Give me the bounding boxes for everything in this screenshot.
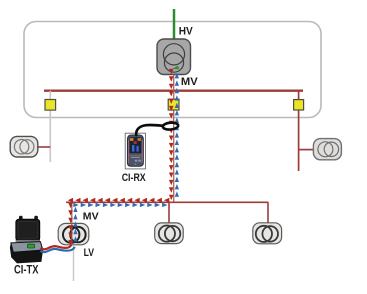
HV/MV transformer U1 [157, 39, 191, 75]
substation enclosure [24, 22, 321, 118]
busbar [44, 89, 303, 91]
transformer T3 [155, 223, 184, 244]
switch S1 [45, 100, 56, 111]
switch S2 [168, 99, 179, 110]
LV wire [73, 245, 75, 281]
svg-text:CI-RX: CI-RX [122, 172, 146, 184]
svg-text:CI-TX: CI-TX [14, 262, 39, 276]
svg-text:MV: MV [181, 76, 199, 88]
svg-text:LV: LV [84, 247, 95, 259]
stub wire to T2 [299, 149, 314, 151]
right feeder wire [298, 91, 300, 171]
switch S3 [294, 100, 304, 110]
HV incoming line [173, 9, 176, 45]
svg-text:HV: HV [179, 26, 194, 38]
current clamp [163, 122, 179, 130]
signal arrows: middle vertical run [169, 69, 179, 200]
CI-TX transmitter case [10, 216, 43, 264]
CI-RX frame [125, 133, 145, 169]
middle feeder thin wire [173, 75, 175, 203]
MV/LV transformer T5 [58, 223, 89, 244]
coupling arrow (green) [172, 66, 179, 70]
transformer T4 [253, 223, 282, 244]
CI-TX coupling cable (red/blue pair) [41, 245, 72, 250]
signal arrows: horizontal run [68, 198, 170, 207]
transformer T2 [313, 139, 341, 160]
transformer T1 [10, 136, 38, 157]
stub wire to T1 [38, 146, 50, 148]
signal arrows: bottom-left vertical run [68, 203, 77, 245]
drop wire to T4 [267, 202, 269, 224]
drop wire to T3 [168, 202, 170, 224]
left feeder wire [49, 91, 51, 162]
CI-RX cable [136, 125, 164, 135]
svg-text:MV: MV [83, 211, 99, 222]
signal wire under bottom-left run [71, 202, 73, 244]
bottom feeder wire [66, 201, 268, 203]
CI-RX receiver device [127, 135, 143, 166]
